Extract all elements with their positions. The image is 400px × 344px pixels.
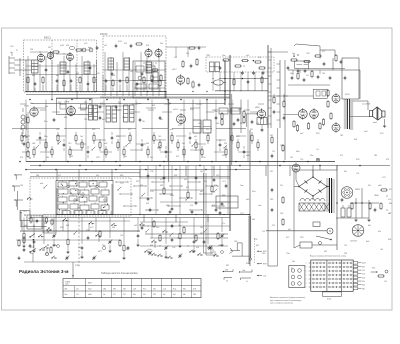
AGC dashed box: [206, 57, 274, 72]
left contacts: [12, 174, 30, 230]
corner arrow: [20, 211, 26, 226]
label box: [345, 94, 350, 96]
splitter column parts: [273, 94, 286, 120]
band3 lower stage drops: [22, 218, 224, 260]
svg-text:0м8: 0м8: [24, 225, 27, 227]
svg-text:6C3: 6C3: [362, 277, 365, 279]
svg-text:4П5: 4П5: [66, 45, 69, 47]
svg-text:140: 140: [200, 227, 203, 229]
tube V10 output: [332, 122, 340, 133]
svg-text:3R2: 3R2: [113, 289, 116, 291]
R between: [283, 96, 325, 132]
svg-text:LLL: LLL: [316, 149, 319, 151]
svg-text:L40: L40: [380, 249, 383, 251]
svg-text:685: 685: [64, 117, 67, 119]
svg-text:L515П4: L515П4: [350, 241, 357, 243]
svg-text:м31: м31: [134, 225, 137, 227]
motor switch box: [300, 242, 312, 248]
gang solid x249: [249, 216, 251, 264]
svg-text:2Cк: 2Cк: [280, 185, 283, 187]
rectifier bridge: [298, 176, 328, 197]
svg-text:к90: к90: [194, 136, 197, 138]
coil bank outline: [56, 181, 113, 215]
diode oval: [211, 80, 226, 85]
phono amp box: [342, 58, 359, 99]
label V13: [173, 109, 179, 111]
RC upper: [182, 58, 198, 68]
svg-text:35к: 35к: [368, 185, 371, 187]
svg-text:8к4: 8к4: [173, 294, 176, 296]
svg-text:RR4: RR4: [190, 109, 194, 111]
svg-text:2Rм: 2Rм: [103, 289, 106, 291]
keyboard caption: [310, 254, 346, 257]
IF cluster right: [219, 108, 245, 126]
label A: [10, 52, 12, 54]
input switch: [22, 135, 28, 138]
label wheel: [350, 241, 357, 243]
idler wheel: [327, 228, 333, 234]
band3 center links: [140, 178, 230, 202]
svg-text:R7L: R7L: [240, 123, 243, 125]
vertical x268: [268, 45, 271, 128]
speaker wires: [350, 101, 387, 127]
terminal circle: [249, 238, 254, 264]
svg-text:044: 044: [252, 219, 255, 221]
wire antenna to box: [25, 60, 31, 70]
cap below driver: [261, 125, 264, 133]
svg-text:C8к: C8к: [198, 123, 201, 125]
svg-text:7м7: 7м7: [80, 136, 83, 138]
svg-text:8м9: 8м9: [366, 241, 369, 243]
scattered value labels: [20, 102, 391, 247]
svg-text:472: 472: [128, 129, 131, 131]
label Gr: [373, 122, 378, 124]
tone verticals: [293, 58, 360, 99]
extra junction dots: [25, 91, 249, 215]
svg-text:26к: 26к: [290, 73, 293, 75]
table caption: [101, 272, 138, 275]
band2 plate lines: [12, 128, 246, 130]
svg-text:м7L1: м7L1: [173, 109, 179, 111]
UKV extra caps: [45, 49, 159, 76]
varcap C4: [178, 254, 182, 259]
switch S4: [111, 223, 117, 226]
tube V7: [298, 108, 307, 120]
svg-text:9R8: 9R8: [193, 294, 196, 296]
main vertical feed: [224, 60, 226, 105]
tube V4: [145, 48, 152, 58]
pickup connector block: [289, 266, 305, 288]
svg-text:477: 477: [118, 102, 121, 104]
PSU wires: [336, 188, 379, 221]
svg-text:RП9: RП9: [263, 264, 267, 266]
band2 left column: [23, 112, 29, 146]
svg-text:4П4: 4П4: [256, 123, 259, 125]
detector parts: [219, 59, 266, 70]
svg-text:740: 740: [322, 73, 325, 75]
svg-text:5кL: 5кL: [103, 294, 106, 296]
svg-text:546: 546: [153, 289, 156, 291]
vertical x230 AGC: [230, 55, 232, 231]
keyboard bottom strip: [323, 292, 342, 301]
svg-text:кC2: кC2: [160, 179, 163, 181]
svg-text:602: 602: [362, 285, 365, 287]
varcap C3: [148, 251, 152, 256]
UKV ground bus: [26, 91, 166, 93]
det extra parts: [291, 55, 326, 82]
title: [19, 269, 69, 274]
svg-text:LC6: LC6: [172, 247, 175, 249]
IF can double: [210, 62, 220, 72]
tube V9 output: [332, 93, 340, 104]
svg-text:8L8: 8L8: [146, 45, 149, 47]
left R: [17, 150, 30, 259]
band2 bus 3: [26, 169, 250, 171]
svg-text:877: 877: [389, 189, 392, 191]
stage divider dashed: [76, 40, 78, 92]
band3 link bus c: [24, 261, 120, 263]
svg-text:2к44: 2к44: [65, 284, 68, 286]
svg-text:586: 586: [65, 289, 68, 291]
svg-text:471: 471: [113, 294, 116, 296]
R horizontal right: [380, 189, 388, 191]
svg-text:65к: 65к: [160, 119, 163, 121]
band2 extra caps: [53, 110, 254, 124]
inner shield box: [133, 61, 165, 98]
svg-text:ПC2: ПC2: [23, 211, 27, 213]
svg-text:CR4: CR4: [122, 117, 126, 119]
keyboard block frame: [311, 260, 353, 291]
svg-text:596: 596: [160, 43, 163, 45]
svg-text:692: 692: [256, 245, 259, 247]
varcap C5: [208, 246, 212, 251]
svg-text:L41: L41: [290, 157, 293, 159]
arrow label 1: [257, 251, 267, 254]
frequency table: [63, 279, 201, 298]
switch S6: [139, 223, 145, 226]
svg-text:ПкL: ПкL: [142, 121, 145, 123]
svg-text:5C7: 5C7: [322, 51, 325, 53]
svg-text:500: 500: [146, 143, 149, 145]
svg-text:7535: 7535: [24, 106, 30, 108]
band2 bus 2: [30, 165, 390, 167]
keyboard row labels: [306, 263, 311, 289]
pilot lamp: [316, 158, 320, 162]
svg-text:П61: П61: [374, 155, 377, 157]
C row right: [317, 75, 347, 80]
band2 module box: [57, 99, 93, 115]
svg-text:LCк: LCк: [388, 199, 391, 201]
svg-text:1мL: 1мL: [292, 53, 295, 55]
vertical x268 down: [267, 128, 269, 266]
svg-text:968: 968: [218, 245, 221, 247]
svg-text:585: 585: [200, 233, 203, 235]
trimmer row: [96, 43, 143, 50]
R psu right: [369, 202, 382, 212]
svg-text:L5L: L5L: [384, 281, 387, 283]
tube V13: [177, 113, 186, 125]
svg-text:к217: к217: [172, 69, 177, 71]
mains elbow wires: [230, 243, 250, 256]
contact bracket B: [239, 270, 252, 284]
svg-text:6к8: 6к8: [368, 225, 371, 227]
svg-text:22RR1: 22RR1: [65, 282, 70, 284]
svg-text:072: 072: [186, 187, 189, 189]
motor bus: [266, 230, 327, 232]
svg-text:75L: 75L: [272, 151, 275, 153]
C tone: [287, 66, 290, 70]
svg-text:725: 725: [344, 245, 347, 247]
bottom caption line1: [270, 297, 306, 299]
motor rect: [313, 222, 320, 227]
speaker Gr1: [370, 107, 378, 120]
speaker Gr2: [378, 108, 385, 121]
svg-text:RL6: RL6: [372, 268, 375, 270]
shield box contents: [133, 63, 165, 90]
vertical x277: [277, 128, 279, 266]
label V6: [172, 69, 177, 71]
svg-text:к90: к90: [200, 191, 203, 193]
svg-text:R04: R04: [388, 239, 391, 241]
label +250V: [362, 104, 371, 106]
svg-text:654: 654: [354, 139, 357, 141]
svg-text:4П3: 4П3: [225, 269, 228, 271]
keyboard right parts: [371, 268, 388, 284]
svg-text:Радиола Эстония 3-м: Радиола Эстония 3-м: [19, 269, 69, 274]
svg-text:L10: L10: [263, 276, 266, 278]
svg-text:2П9: 2П9: [75, 265, 78, 267]
pointer to table: [72, 262, 78, 278]
coil T6: [146, 62, 152, 73]
svg-text:3к0: 3к0: [163, 294, 166, 296]
tube V12 heptode: [67, 105, 76, 117]
svg-text:510: 510: [143, 294, 146, 296]
bottom caption line3: [270, 302, 293, 305]
power transformer Tr: [326, 178, 335, 213]
wire: [165, 92, 167, 100]
svg-text:м56: м56: [40, 183, 43, 185]
svg-text:1L6: 1L6: [362, 274, 365, 276]
svg-text:C5C: C5C: [10, 46, 14, 48]
svg-text:к382: к382: [255, 107, 260, 109]
svg-text:C68: C68: [234, 241, 237, 243]
psu feed wires: [296, 165, 337, 187]
svg-text:б: б: [306, 279, 307, 281]
svg-text:вид со стороны монтажа: вид со стороны монтажа: [270, 302, 293, 305]
svg-text:м93: м93: [104, 143, 107, 145]
line y70: [288, 69, 360, 71]
UKV unit dashed enclosure B: [103, 36, 166, 98]
band3 feed drops: [140, 166, 228, 216]
band2 top gap wires: [60, 103, 171, 109]
svg-text:мC7: мC7: [90, 227, 94, 229]
more value labels: [20, 43, 386, 263]
svg-text:П6L: П6L: [340, 135, 343, 137]
svg-text:мП5: мП5: [193, 289, 196, 291]
corner box 1: [27, 215, 42, 229]
line y78: [219, 78, 268, 80]
bottom caption line2: [270, 299, 302, 302]
R8: [254, 61, 262, 63]
svg-text:б: б: [306, 263, 307, 265]
misc dots top: [29, 99, 226, 101]
svg-text:к8: к8: [226, 281, 228, 283]
label V14: [255, 107, 260, 109]
center verticals: [193, 100, 241, 134]
svg-text:745: 745: [20, 185, 23, 187]
svg-text:4Rк: 4Rк: [32, 75, 35, 77]
svg-text:904: 904: [216, 123, 219, 125]
svg-text:19C4C: 19C4C: [100, 33, 108, 36]
keyboard group dividers: [327, 260, 342, 291]
interconnect wires: [57, 166, 337, 267]
electrolytic C16: [341, 205, 345, 217]
R near V6: [187, 77, 189, 85]
label row: [60, 41, 123, 47]
line y90: [215, 90, 268, 92]
arrow label 2: [257, 263, 267, 266]
svg-text:3кL6: 3кL6: [327, 299, 331, 301]
svg-text:0L: 0L: [246, 281, 248, 283]
svg-text:489: 489: [78, 247, 81, 249]
svg-text:мR6: мR6: [246, 155, 250, 157]
small tubes row: [69, 46, 93, 52]
svg-text:L7П8: L7П8: [64, 102, 70, 104]
gang dashed x79: [78, 178, 80, 268]
switch S3: [89, 222, 95, 225]
band2 stubs: [20, 104, 264, 110]
svg-text:367: 367: [250, 129, 253, 131]
svg-text:L9к: L9к: [178, 225, 181, 227]
svg-text:1LC4Пк8: 1LC4Пк8: [362, 104, 371, 106]
svg-text:2Cк: 2Cк: [186, 53, 189, 55]
coil T3: [84, 62, 90, 74]
C near V6: [198, 83, 201, 87]
svg-text:846: 846: [183, 289, 186, 291]
band3 lower wires: [20, 221, 228, 235]
svg-text:014: 014: [146, 203, 149, 205]
tube V11: [30, 106, 38, 117]
svg-text:ПL3: ПL3: [158, 136, 161, 138]
band3 link bus b: [150, 237, 228, 239]
IF can D: [193, 120, 201, 133]
band3 center box: [216, 196, 238, 208]
tube socket top view: [341, 187, 353, 199]
svg-text:325: 325: [224, 143, 227, 145]
svg-text:П35: П35: [153, 294, 156, 296]
band3 link bus a2: [16, 221, 130, 240]
svg-text:06к: 06к: [292, 261, 295, 263]
vertical x294: [293, 172, 295, 248]
switch S5: [38, 235, 44, 238]
det extra horizontals: [268, 52, 330, 96]
corner levers: [29, 234, 36, 263]
vertical x250: [249, 130, 251, 266]
svg-text:L15: L15: [362, 270, 365, 272]
svg-text:м06: м06: [170, 129, 173, 131]
band3 link bus b2: [140, 226, 230, 246]
switch S7 row: [144, 250, 219, 257]
svg-text:R2к: R2к: [204, 181, 207, 183]
svg-text:57: 57: [389, 213, 391, 215]
svg-text:RL6: RL6: [156, 227, 159, 229]
driver transformer: [257, 118, 267, 125]
contact bracket A: [223, 269, 233, 282]
svg-text:7L6: 7L6: [120, 235, 123, 237]
switch S1: [27, 197, 33, 200]
coil T5: [124, 58, 130, 70]
stage divider dashed: [51, 40, 53, 92]
svg-text:П01: П01: [30, 49, 33, 51]
svg-text:209: 209: [70, 156, 73, 158]
label V11: [24, 106, 30, 108]
svg-text:27: 27: [16, 50, 18, 52]
arrow label 3: [257, 275, 267, 278]
psu extra: [336, 198, 363, 210]
svg-text:584: 584: [46, 157, 49, 159]
svg-text:П27: П27: [270, 171, 273, 173]
label L1P: [44, 37, 52, 40]
long drop pair: [204, 173, 216, 255]
boxB extra can: [152, 72, 162, 82]
svg-text:0C4: 0C4: [184, 179, 187, 181]
svg-text:672: 672: [340, 155, 343, 157]
svg-text:49к: 49к: [378, 231, 381, 233]
label V12: [64, 102, 70, 104]
svg-text:Вид на клавишный переключатель: Вид на клавишный переключатель снизу: [310, 254, 346, 257]
svg-text:369: 369: [152, 105, 155, 107]
tube V5: [155, 48, 162, 58]
agc branch ticks: [268, 52, 280, 124]
svg-text:843: 843: [66, 225, 69, 227]
svg-text:258: 258: [344, 253, 347, 255]
band3 weave links: [116, 182, 225, 211]
svg-text:0к4: 0к4: [56, 75, 59, 77]
volume pot: [290, 54, 298, 61]
band3 smudges: [30, 227, 203, 255]
band3 top bus: [30, 176, 230, 178]
tube V1: [37, 53, 44, 63]
band3 lower RC: [23, 232, 219, 256]
corner box 2: [43, 215, 56, 234]
svg-text:924: 924: [112, 75, 115, 77]
svg-text:98L: 98L: [183, 294, 186, 296]
svg-text:2к6: 2к6: [182, 143, 185, 145]
svg-text:R8к: R8к: [45, 106, 48, 108]
electrolytic C17: [347, 205, 351, 217]
tone wire zigzag: [294, 44, 335, 59]
svg-text:0R3: 0R3: [160, 185, 163, 187]
varcap C1: [65, 256, 69, 261]
svg-text:5L3: 5L3: [124, 43, 127, 45]
svg-text:1L3: 1L3: [44, 223, 47, 225]
svg-text:83к: 83к: [344, 171, 347, 173]
right tone parts: [308, 54, 345, 69]
svg-text:660: 660: [389, 203, 392, 205]
corner labels: [10, 46, 18, 56]
svg-text:CП6: CП6: [96, 73, 100, 75]
svg-text:LR5: LR5: [262, 253, 265, 255]
diagonal lever texture: [36, 141, 228, 237]
band3 center RC: [147, 174, 228, 214]
coil T4: [108, 58, 114, 70]
svg-text:332: 332: [226, 265, 229, 267]
label psu: [374, 185, 381, 197]
svg-text:3R7: 3R7: [324, 251, 327, 253]
boxA top links: [30, 50, 92, 55]
band2 bus 1: [26, 161, 335, 163]
svg-text:при нажатой кнопке II клавиату: при нажатой кнопке II клавиатуры: [270, 299, 302, 302]
